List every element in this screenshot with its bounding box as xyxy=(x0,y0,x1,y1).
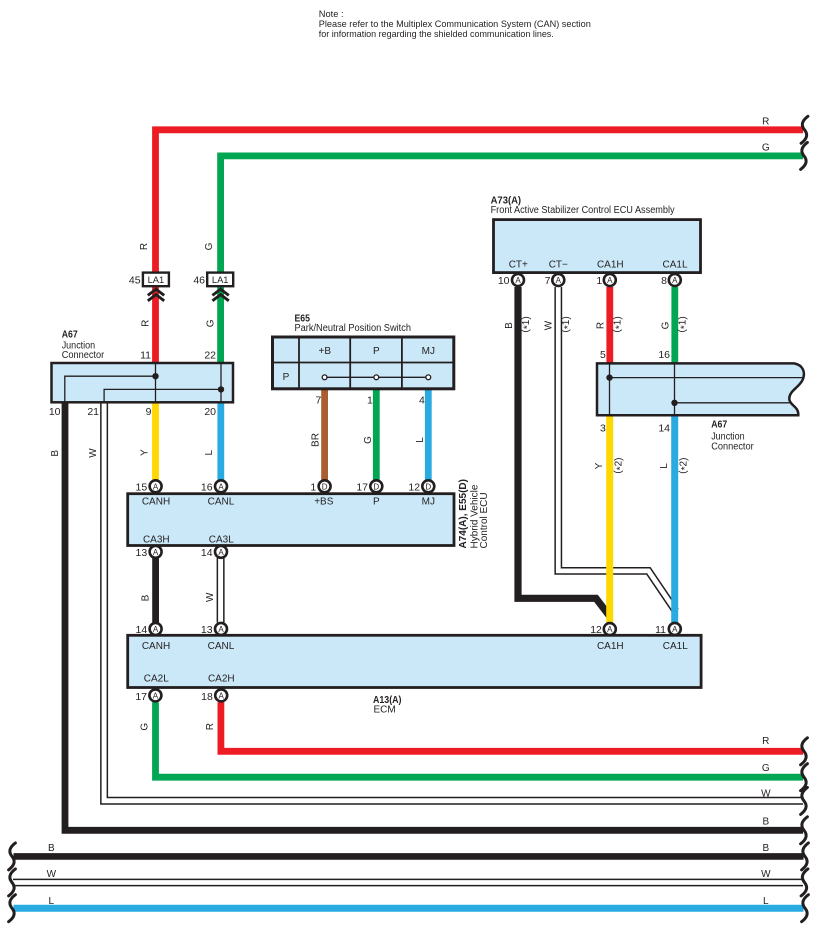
svg-text:B: B xyxy=(762,843,769,854)
park/neutral position switch E65 box xyxy=(273,337,454,389)
E65 contact circle P xyxy=(374,375,379,380)
front active stabilizer control ECU assembly A73(A) box xyxy=(494,220,701,273)
svg-text:12: 12 xyxy=(408,481,420,493)
svg-text:A: A xyxy=(672,625,678,634)
bus wire L bottom xyxy=(14,905,804,912)
junction connector A67 left box xyxy=(52,363,234,402)
svg-text:CA3L: CA3L xyxy=(209,535,234,546)
break symbol L bus left xyxy=(9,895,16,922)
pin 12 A circle above ECM xyxy=(590,623,616,636)
pin 11 A circle above ECM xyxy=(655,623,681,636)
svg-text:A74(A), E55(D): A74(A), E55(D) xyxy=(458,479,469,548)
svg-text:21: 21 xyxy=(87,406,99,418)
wire Y A67 pin 9 to HV ECU pin 15 xyxy=(152,402,159,481)
svg-text:(*1): (*1) xyxy=(520,316,533,332)
wire B from A67 pin 10 to right edge xyxy=(65,402,803,830)
svg-text:A: A xyxy=(556,276,562,285)
svg-text:G: G xyxy=(205,319,216,327)
break symbol G top xyxy=(801,142,808,169)
svg-text:7: 7 xyxy=(545,275,551,287)
svg-text:A: A xyxy=(219,691,225,700)
svg-text:MJ: MJ xyxy=(422,497,435,508)
bus wire W bottom xyxy=(13,879,803,887)
wire G E65 pin 1 to HV ECU pin 17 xyxy=(373,388,380,481)
break symbol W bus right xyxy=(801,869,808,896)
svg-text:(*1): (*1) xyxy=(561,316,574,332)
svg-text:Front Active Stabilizer Contro: Front Active Stabilizer Control ECU Asse… xyxy=(491,205,675,216)
ECM box A13(A) xyxy=(128,635,701,687)
svg-text:D: D xyxy=(373,482,379,491)
svg-text:1: 1 xyxy=(367,395,373,407)
svg-text:A: A xyxy=(153,691,159,700)
pin 13 A circle above ECM xyxy=(201,623,227,636)
wire G A73 CA1L to right A67 pin 16 xyxy=(671,287,678,364)
svg-text:CA3H: CA3H xyxy=(143,535,170,546)
svg-text:8: 8 xyxy=(661,275,667,287)
svg-text:A67: A67 xyxy=(62,330,78,341)
A67 left internal wire 22 to 20 xyxy=(220,363,222,402)
pin 1 A circle A73 CA1H xyxy=(596,274,615,287)
svg-text:+B: +B xyxy=(319,346,332,357)
svg-text:R: R xyxy=(595,322,606,329)
svg-text:A: A xyxy=(672,276,678,285)
break symbol B bus right xyxy=(802,843,809,870)
svg-text:CA1L: CA1L xyxy=(662,259,687,270)
svg-text:L: L xyxy=(659,463,670,469)
svg-text:A: A xyxy=(153,482,159,491)
A67 right internal wire lower branch xyxy=(675,402,790,404)
svg-text:W: W xyxy=(544,320,555,330)
svg-text:LA1: LA1 xyxy=(148,275,165,285)
pin 1 D circle HV ECU xyxy=(310,480,330,493)
hybrid vehicle control ECU box A74(A) E55(D) xyxy=(128,494,454,546)
svg-text:G: G xyxy=(363,436,374,444)
svg-text:L: L xyxy=(763,896,769,907)
svg-text:L: L xyxy=(204,449,215,455)
svg-text:15: 15 xyxy=(136,481,148,493)
svg-text:P: P xyxy=(373,497,380,508)
svg-text:CA2H: CA2H xyxy=(208,674,235,685)
E65 grid line vertical 3 xyxy=(401,337,403,389)
svg-text:W: W xyxy=(761,788,771,799)
svg-text:W: W xyxy=(761,869,771,880)
svg-text:1: 1 xyxy=(310,481,316,493)
svg-text:5: 5 xyxy=(600,349,606,361)
svg-text:18: 18 xyxy=(201,691,213,703)
junction dot right A67 upper xyxy=(606,374,612,380)
svg-text:Control ECU: Control ECU xyxy=(479,492,490,548)
pin 18 A circle below ECM xyxy=(201,689,227,702)
svg-text:R: R xyxy=(762,736,769,747)
pin 12 D circle HV ECU xyxy=(408,480,434,493)
break symbol L bus right xyxy=(802,895,809,922)
svg-text:45: 45 xyxy=(129,275,141,287)
svg-text:R: R xyxy=(762,117,769,128)
junction dot right A67 lower xyxy=(671,400,677,406)
wire B shield from A73 CT+ to CA1H wire xyxy=(518,287,610,616)
break symbol W bus left xyxy=(9,869,16,896)
pin 17 D circle HV ECU xyxy=(356,480,382,493)
svg-text:B: B xyxy=(141,594,152,601)
svg-text:D: D xyxy=(322,482,328,491)
E65 contact circle MJ xyxy=(426,375,431,380)
svg-text:Please refer to the Multiplex: Please refer to the Multiplex Communicat… xyxy=(319,19,591,29)
svg-text:W: W xyxy=(205,592,216,602)
svg-text:(*2): (*2) xyxy=(678,458,691,474)
svg-text:R: R xyxy=(205,723,216,730)
svg-text:11: 11 xyxy=(655,624,666,636)
break symbol B bus left xyxy=(9,843,16,870)
svg-text:46: 46 xyxy=(193,275,205,287)
wire W from A67 pin 21 to right edge xyxy=(104,402,803,801)
wire R ECM pin 18 to right edge xyxy=(221,702,803,751)
wire L right A67 pin 14 to ECM pin 11 xyxy=(671,415,678,623)
svg-text:G: G xyxy=(660,321,671,329)
svg-text:10: 10 xyxy=(49,406,61,418)
svg-text:G: G xyxy=(762,143,770,154)
svg-text:13: 13 xyxy=(136,547,148,559)
break symbol W lower xyxy=(801,787,808,814)
svg-text:W: W xyxy=(88,448,99,458)
note text xyxy=(319,9,591,39)
svg-text:Connector: Connector xyxy=(711,442,754,453)
pin 7 A circle A73 CT- xyxy=(545,274,565,287)
svg-text:Park/Neutral Position Switch: Park/Neutral Position Switch xyxy=(295,323,412,334)
svg-text:G: G xyxy=(762,763,770,774)
label A67 left title xyxy=(62,330,105,362)
svg-text:(*1): (*1) xyxy=(612,316,625,332)
svg-text:CA1H: CA1H xyxy=(597,641,624,652)
pin 15 A circle HV ECU xyxy=(136,480,162,493)
svg-text:CA1L: CA1L xyxy=(663,641,688,652)
pin 14 A circle below HV ECU xyxy=(201,546,227,559)
svg-text:P: P xyxy=(283,372,290,383)
svg-text:B: B xyxy=(50,450,61,457)
pin 10 A circle A73 CT+ xyxy=(498,274,524,287)
svg-text:A: A xyxy=(218,625,224,634)
A67 right internal wire upper branch xyxy=(610,377,804,379)
svg-text:12: 12 xyxy=(590,624,602,636)
svg-text:B: B xyxy=(504,322,515,329)
svg-text:9: 9 xyxy=(146,406,152,418)
svg-text:CT−: CT− xyxy=(549,259,568,270)
break symbol B lower xyxy=(801,817,808,844)
label A13(A) ECM title xyxy=(373,695,402,715)
svg-text:16: 16 xyxy=(201,481,213,493)
svg-text:BR: BR xyxy=(310,433,321,447)
bus wire B bottom xyxy=(14,853,804,860)
connector 45 LA1 xyxy=(129,273,169,287)
chevron mark below 45 LA1 xyxy=(148,289,164,301)
svg-text:R: R xyxy=(139,243,150,250)
pin 17 A circle below ECM xyxy=(135,689,161,702)
svg-text:17: 17 xyxy=(356,481,368,493)
svg-text:ECM: ECM xyxy=(374,704,396,715)
svg-text:MJ: MJ xyxy=(422,346,435,357)
svg-text:CANH: CANH xyxy=(142,497,170,508)
pin 13 A circle below HV ECU xyxy=(136,546,162,559)
break symbol G lower xyxy=(801,764,808,791)
svg-text:G: G xyxy=(140,723,151,731)
svg-text:CANL: CANL xyxy=(208,497,235,508)
svg-text:Y: Y xyxy=(139,449,150,456)
svg-text:G: G xyxy=(204,242,215,250)
svg-text:D: D xyxy=(425,482,431,491)
wire L A67 pin 20 to HV ECU pin 16 xyxy=(217,402,224,481)
label A73 title xyxy=(491,195,675,216)
svg-text:Y: Y xyxy=(594,462,605,469)
wire L E65 pin 4 to HV ECU pin 12 xyxy=(425,388,432,481)
wire BR E65 pin 7 to HV ECU pin 1 xyxy=(321,388,328,481)
svg-text:22: 22 xyxy=(204,350,216,362)
label A67 right title xyxy=(711,419,754,452)
svg-text:A: A xyxy=(607,276,613,285)
svg-text:CA2L: CA2L xyxy=(144,674,169,685)
junction dot left A67 lower xyxy=(218,386,224,392)
wire W shield from A73 CT- to CA1L wire xyxy=(558,287,677,613)
svg-text:CANH: CANH xyxy=(142,641,170,652)
break symbol R top xyxy=(801,116,808,143)
svg-text:P: P xyxy=(373,346,380,357)
break symbol R lower xyxy=(801,738,808,765)
connector 46 LA1 xyxy=(193,273,233,287)
svg-text:11: 11 xyxy=(140,350,151,362)
svg-text:CANL: CANL xyxy=(208,641,235,652)
wire B HV ECU pin 13 to ECM pin 14 xyxy=(152,558,159,623)
svg-text:CT+: CT+ xyxy=(509,259,528,270)
label E65 title xyxy=(295,313,412,334)
A67 right internal wire 16 to 14 xyxy=(674,363,676,415)
E65 grid line horizontal xyxy=(273,362,454,364)
chevron mark below 46 LA1 xyxy=(212,289,228,301)
svg-text:3: 3 xyxy=(600,423,606,435)
label A74(A) E55(D) rotated title xyxy=(458,479,490,548)
E65 switch contact line xyxy=(325,376,429,378)
svg-text:+BS: +BS xyxy=(314,497,334,508)
svg-text:W: W xyxy=(47,869,57,880)
junction connector A67 right box with torn edge xyxy=(597,363,804,415)
pin 16 A circle HV ECU xyxy=(201,480,227,493)
svg-text:R: R xyxy=(140,320,151,327)
svg-text:B: B xyxy=(48,843,55,854)
E65 contact circle +B xyxy=(322,375,327,380)
svg-text:16: 16 xyxy=(658,349,670,361)
svg-text:B: B xyxy=(762,816,769,827)
svg-text:(*2): (*2) xyxy=(613,458,626,474)
svg-text:14: 14 xyxy=(658,423,670,435)
A67 right internal wire 5 to 3 xyxy=(609,363,611,415)
svg-text:L: L xyxy=(49,896,55,907)
svg-text:20: 20 xyxy=(204,406,216,418)
svg-text:for information regarding the: for information regarding the shielded c… xyxy=(319,29,554,39)
svg-text:14: 14 xyxy=(201,547,213,559)
svg-text:L: L xyxy=(415,437,426,443)
wire R top horizontal to 45 LA1 and A67 pin 11 xyxy=(156,130,804,364)
svg-text:A67: A67 xyxy=(711,419,727,430)
svg-text:Note :: Note : xyxy=(319,9,344,19)
wire Y right A67 pin 3 to ECM pin 12 xyxy=(606,415,613,623)
wire W HV ECU pin 14 to ECM pin 13 xyxy=(217,558,225,623)
svg-text:A: A xyxy=(515,276,521,285)
A67 left internal wire 11 to 9 xyxy=(155,363,157,402)
svg-text:LA1: LA1 xyxy=(212,275,229,285)
svg-text:Connector: Connector xyxy=(62,350,105,361)
E65 grid line vertical 1 xyxy=(298,337,300,389)
A67 left internal wire to pin 21 xyxy=(104,389,221,402)
wire G ECM pin 17 to right edge xyxy=(156,702,804,777)
wire R A73 CA1H to right A67 pin 5 xyxy=(606,287,613,364)
svg-text:(*1): (*1) xyxy=(677,316,690,332)
svg-text:A: A xyxy=(153,625,159,634)
svg-text:A: A xyxy=(218,482,224,491)
wire G top horizontal to 46 LA1 and A67 pin 22 xyxy=(221,156,803,364)
svg-text:10: 10 xyxy=(498,275,510,287)
svg-text:A: A xyxy=(153,548,159,557)
svg-text:7: 7 xyxy=(315,395,321,407)
svg-text:CA1H: CA1H xyxy=(597,259,624,270)
E65 grid line vertical 2 xyxy=(349,337,351,389)
junction dot left A67 upper xyxy=(152,373,158,379)
pin 14 A circle above ECM xyxy=(136,623,162,636)
svg-text:13: 13 xyxy=(201,624,213,636)
svg-text:4: 4 xyxy=(419,395,425,407)
svg-text:A: A xyxy=(607,625,613,634)
pin 8 A circle A73 CA1L xyxy=(661,274,681,287)
svg-text:A: A xyxy=(218,548,224,557)
svg-text:14: 14 xyxy=(136,624,148,636)
A67 left internal wire to pin 10 xyxy=(65,376,156,402)
svg-text:17: 17 xyxy=(135,691,147,703)
svg-text:1: 1 xyxy=(596,275,602,287)
